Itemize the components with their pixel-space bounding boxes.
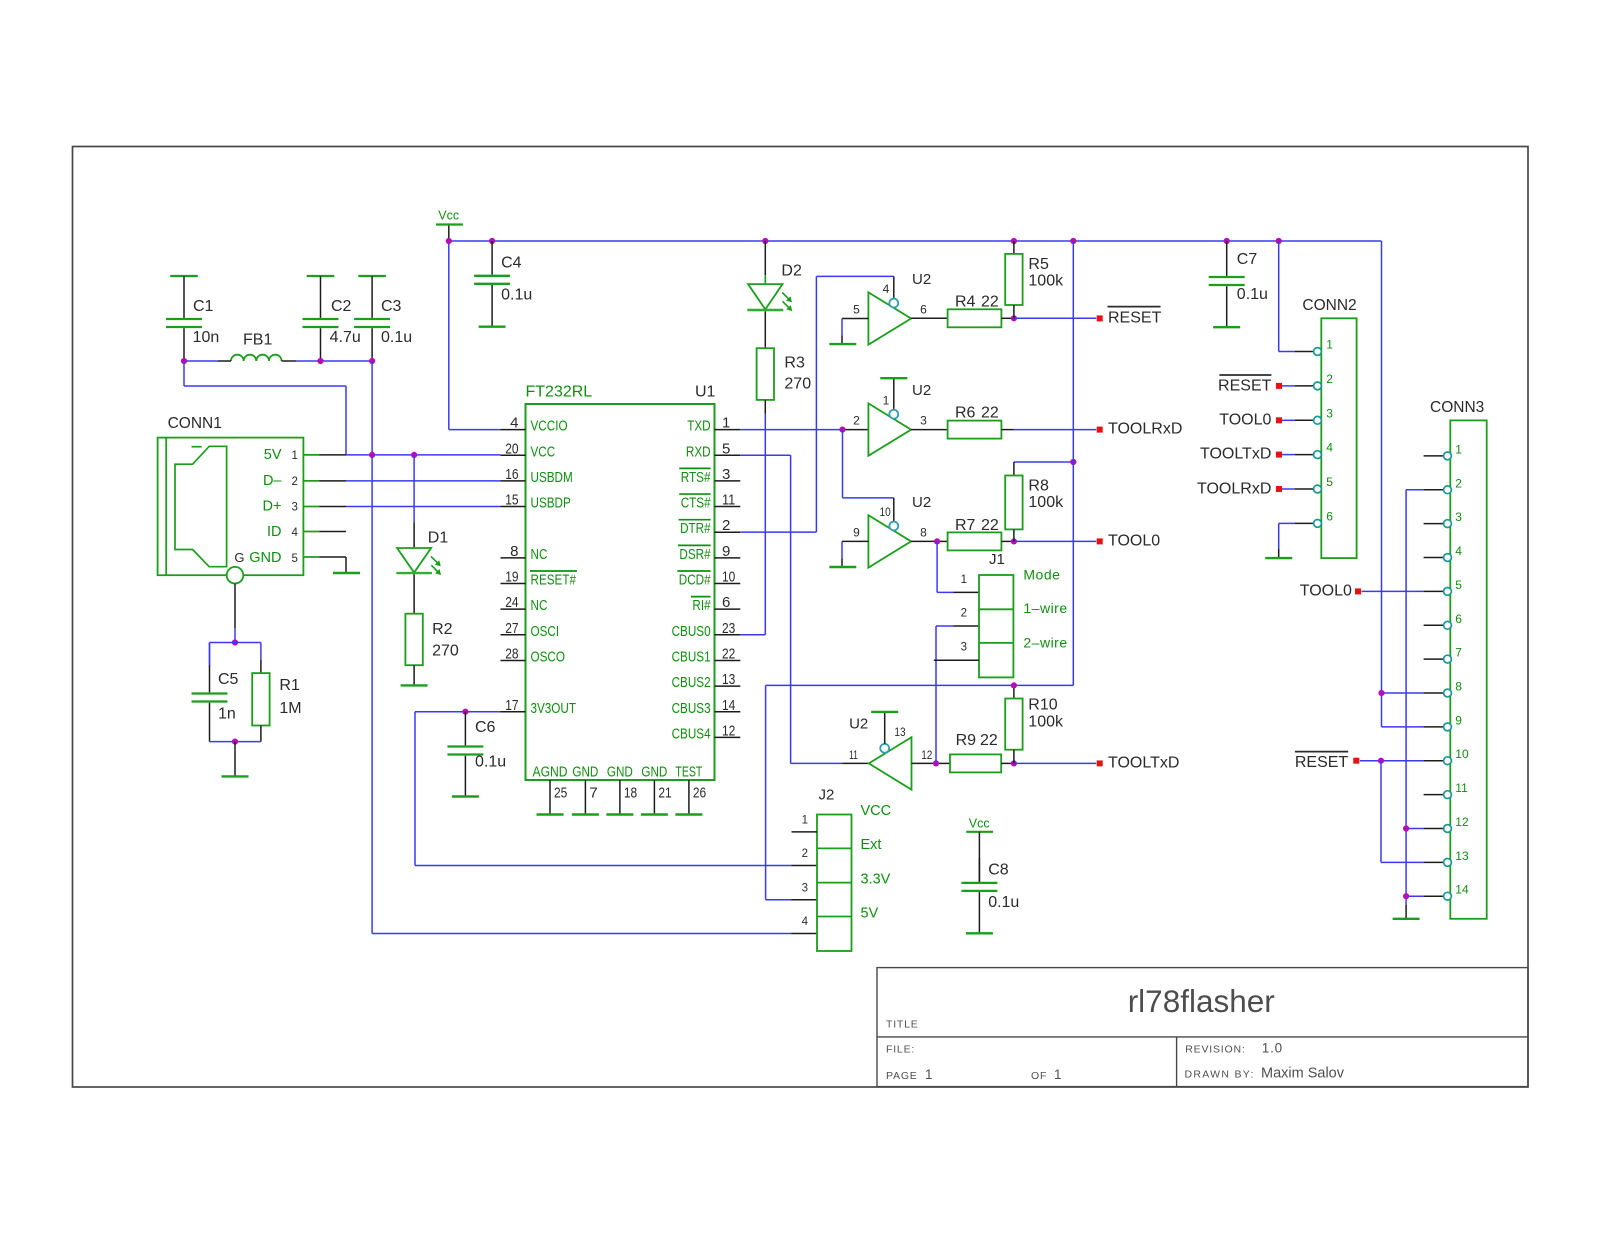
svg-text:J2: J2 (819, 787, 835, 804)
capacitor C8 0.1u (961, 858, 1019, 933)
U1 pin 27 OSCI (501, 620, 560, 640)
U1 pin 4 VCCIO (501, 415, 568, 435)
title block (877, 968, 1528, 1087)
drawing border frame (73, 147, 1529, 1088)
CONN3 pin 7 (1424, 646, 1463, 663)
resistor R2 270 (405, 574, 458, 685)
wire U2b output to R6 (911, 429, 948, 431)
svg-text:18: 18 (624, 784, 637, 801)
U1 pin 13 CBUS2 (672, 671, 741, 691)
wire VCC net CONN1 to U1 pin20 (346, 454, 501, 456)
svg-text:6: 6 (920, 303, 927, 317)
capacitor C6 0.1u (447, 712, 506, 797)
svg-text:GND: GND (249, 550, 281, 566)
svg-text:100k: 100k (1028, 272, 1064, 289)
U1 pin 15 USBDP (501, 492, 571, 512)
wire junction up to J1 pin2 (936, 626, 979, 763)
CONN2 pin 1 (1314, 338, 1334, 356)
svg-text:CBUS1: CBUS1 (672, 648, 711, 665)
svg-text:19: 19 (505, 569, 518, 586)
CONN1 shield pin G circle (227, 567, 244, 584)
J2 pin 2 (802, 848, 808, 860)
svg-text:1: 1 (292, 450, 298, 462)
svg-text:14: 14 (1455, 883, 1469, 897)
CONN2 pin 6 (1314, 509, 1334, 527)
svg-text:ID: ID (267, 524, 282, 540)
svg-text:RESET: RESET (1108, 309, 1162, 326)
svg-text:R3: R3 (784, 355, 805, 372)
U1 pin 18 GND (607, 763, 637, 814)
junction TOOL0 to J1 pin1 (934, 538, 940, 544)
svg-text:1: 1 (1326, 338, 1333, 352)
wire CONN1 GND pin to ground (345, 557, 347, 573)
buffer U2d pins 13 11 12 (849, 716, 933, 790)
svg-text:C1: C1 (193, 298, 214, 315)
svg-text:22: 22 (980, 732, 998, 749)
capacitor C2 4.7u (303, 276, 361, 361)
svg-text:CBUS2: CBUS2 (672, 674, 711, 691)
junction Vcc-VCCIO corner (446, 238, 452, 244)
wire C5/R1 parallel loop top (210, 643, 261, 666)
wire U2a enable pin 4 (893, 276, 895, 297)
svg-text:OSCO: OSCO (531, 648, 566, 665)
svg-text:12: 12 (722, 722, 735, 739)
U1 pin 2 DTR# (679, 517, 741, 537)
wire Vcc column down to R10 row (1072, 241, 1074, 685)
svg-text:9: 9 (1455, 713, 1462, 727)
svg-text:10: 10 (722, 569, 735, 586)
svg-text:rl78flasher: rl78flasher (1128, 983, 1275, 1019)
svg-text:3: 3 (920, 414, 927, 428)
svg-text:PAGE: PAGE (886, 1070, 918, 1082)
U1 pin 3 RTS# (679, 466, 740, 486)
svg-text:1–wire: 1–wire (1023, 600, 1067, 616)
junction Vcc-C7 (1224, 238, 1230, 244)
svg-text:3V3OUT: 3V3OUT (531, 700, 577, 717)
wire R3 to CBUS0 (740, 400, 765, 635)
ground at U2a input (829, 343, 856, 345)
CONN2 pin 3 (1314, 406, 1334, 424)
off-page RESET to CONN3 pin10 (1295, 752, 1424, 771)
svg-text:2: 2 (722, 517, 730, 534)
svg-text:3: 3 (1326, 406, 1333, 420)
U1 pin 9 DSR# (678, 543, 740, 563)
capacitor C7 0.1u (1209, 241, 1268, 327)
junction C3 (369, 358, 375, 364)
wire USBDM D- to U1 pin16 (346, 480, 501, 482)
svg-text:12: 12 (1455, 815, 1469, 829)
svg-text:C7: C7 (1237, 251, 1258, 268)
ground below CONN1 GND pin (333, 572, 360, 574)
svg-text:R10: R10 (1028, 697, 1057, 714)
svg-text:1: 1 (961, 574, 967, 586)
off-page TOOL0 to CONN3 pin5 (1300, 582, 1424, 599)
title block labels (886, 1019, 1345, 1083)
svg-text:10n: 10n (193, 329, 220, 346)
ground below U1 pin 26 (675, 813, 702, 815)
svg-text:25: 25 (554, 784, 567, 801)
CONN1 pin 2 D- (263, 473, 346, 489)
CONN1 pin 1 5V (264, 447, 346, 463)
svg-text:CTS#: CTS# (681, 495, 711, 512)
connector CONN3 (1430, 399, 1487, 919)
svg-text:TEST: TEST (675, 763, 702, 780)
CONN3 pin 9 (1424, 713, 1463, 730)
svg-text:22: 22 (981, 293, 999, 310)
svg-text:D+: D+ (263, 499, 282, 515)
svg-text:3.3V: 3.3V (861, 872, 891, 888)
J1 pin 3 (934, 642, 979, 661)
svg-text:0.1u: 0.1u (501, 287, 532, 304)
junction R10 top (1011, 682, 1017, 688)
svg-text:CBUS3: CBUS3 (672, 700, 711, 717)
junction Vcc column to R8 (1070, 459, 1076, 465)
svg-text:U1: U1 (695, 383, 716, 400)
svg-text:RXD: RXD (686, 443, 711, 460)
svg-text:CONN3: CONN3 (1430, 399, 1484, 416)
junction 3V3OUT-C6 (462, 709, 468, 715)
svg-text:1: 1 (1054, 1067, 1062, 1082)
ground bar above U2d (871, 711, 898, 713)
svg-text:3: 3 (292, 502, 298, 514)
svg-text:USBDP: USBDP (531, 495, 571, 512)
svg-text:0.1u: 0.1u (381, 329, 412, 346)
off-page TOOL0 right (1097, 532, 1161, 549)
svg-text:5V: 5V (264, 447, 282, 463)
wire C5/R1 parallel loop bottom (210, 741, 261, 743)
svg-text:U2: U2 (912, 494, 931, 511)
wire shield G down to C5/R1 (234, 584, 236, 643)
svg-text:2: 2 (802, 848, 808, 860)
svg-text:11: 11 (849, 748, 858, 762)
wire C3 junction down to VCC line (371, 361, 373, 455)
svg-text:TOOLRxD: TOOLRxD (1197, 480, 1271, 497)
capacitor C4 0.1u (474, 241, 532, 327)
resistor R8 100k (1005, 462, 1073, 541)
svg-text:C4: C4 (501, 255, 522, 272)
CONN3 pin 2 (1424, 476, 1463, 493)
svg-text:2: 2 (853, 414, 860, 428)
U1 pin 10 DCD# (677, 569, 740, 589)
svg-text:RESET: RESET (1295, 754, 1349, 771)
svg-text:GND: GND (572, 763, 598, 780)
svg-text:U2: U2 (912, 382, 931, 399)
svg-text:5: 5 (1455, 578, 1462, 592)
capacitor C1 10n (166, 276, 219, 361)
svg-text:4: 4 (292, 527, 299, 539)
U1 pin 6 RI# (691, 594, 740, 614)
ground below C5/R1 (222, 775, 249, 777)
U1 pin 28 OSCO (501, 645, 566, 665)
svg-text:1: 1 (883, 393, 890, 407)
svg-text:C3: C3 (381, 298, 402, 315)
resistor R5 100k (1005, 241, 1064, 318)
CONN1 pin 4 ID (267, 524, 346, 540)
off-page RESET right (1097, 307, 1162, 327)
svg-text:R9: R9 (956, 732, 977, 749)
svg-text:RESET#: RESET# (531, 572, 577, 589)
svg-text:0.1u: 0.1u (475, 754, 506, 771)
wire RESET branch to CONN3 pin13 (1381, 761, 1424, 863)
off-page TOOLRxD to CONN2 pin5 (1197, 480, 1314, 497)
junction RESET-CONN3 pin13 branch (1378, 758, 1384, 764)
svg-text:R4: R4 (955, 293, 976, 310)
junction shield net top (232, 639, 238, 645)
svg-text:2: 2 (1455, 476, 1462, 490)
svg-text:23: 23 (722, 620, 735, 637)
LED D2 (747, 241, 802, 311)
off-page TOOL0 to CONN2 pin3 (1219, 411, 1313, 428)
svg-text:16: 16 (505, 466, 518, 483)
wire FB1 to C2/C3 junctions (282, 360, 373, 362)
wire U2d enable to bar (884, 712, 886, 744)
ground below U1 pin 25 (537, 813, 564, 815)
svg-text:9: 9 (722, 543, 730, 560)
svg-text:14: 14 (722, 697, 735, 714)
svg-text:GND: GND (607, 763, 633, 780)
svg-text:3: 3 (1455, 510, 1462, 524)
wire U2b enable to bar (893, 378, 895, 409)
CONN3 pin 10 (1424, 747, 1469, 764)
svg-text:4: 4 (802, 916, 809, 928)
svg-text:17: 17 (505, 697, 518, 714)
connector J1 Mode (979, 551, 1068, 678)
svg-text:2–wire: 2–wire (1023, 634, 1067, 650)
svg-text:15: 15 (505, 492, 518, 509)
wire Vcc rail right corner down to CONN3 pins 8 9 (1382, 241, 1424, 727)
svg-text:R6: R6 (955, 405, 976, 422)
svg-text:CONN1: CONN1 (168, 415, 222, 432)
power symbol Vcc (C8) (966, 817, 993, 883)
svg-text:FT232RL: FT232RL (526, 383, 593, 400)
svg-text:R8: R8 (1028, 477, 1049, 494)
svg-text:C8: C8 (988, 862, 1009, 879)
svg-text:R7: R7 (955, 517, 976, 534)
svg-text:6: 6 (1455, 612, 1462, 626)
wire down to J2 pin3 (766, 685, 817, 899)
buffer U2c pins 10 9 8 (853, 494, 931, 568)
wire Vcc rail to VCCIO pin4 (449, 241, 501, 430)
wire junction down to J1 pin1 (937, 541, 979, 592)
CONN2 pin 4 (1314, 441, 1334, 459)
junction Vcc-CONN3 pin8 (1378, 690, 1384, 696)
svg-text:13: 13 (722, 671, 735, 688)
ferrite bead FB1 (231, 331, 282, 361)
U1 pin 16 USBDM (501, 466, 573, 486)
svg-text:FB1: FB1 (243, 331, 272, 348)
svg-text:21: 21 (658, 784, 671, 801)
CONN3 pin 6 (1424, 612, 1463, 629)
svg-text:U2: U2 (912, 271, 931, 288)
svg-text:3: 3 (722, 466, 730, 483)
svg-text:5: 5 (722, 440, 730, 457)
off-page TOOLRxD right (1097, 421, 1183, 438)
svg-text:6: 6 (1326, 509, 1333, 523)
svg-text:0.1u: 0.1u (988, 894, 1019, 911)
ground below R2 (401, 684, 428, 686)
U1 pin 14 CBUS3 (672, 697, 741, 717)
svg-text:GND: GND (641, 763, 667, 780)
svg-text:4.7u: 4.7u (330, 329, 361, 346)
svg-text:AGND: AGND (533, 763, 568, 780)
svg-text:4: 4 (510, 415, 518, 432)
svg-text:R2: R2 (432, 621, 453, 638)
power symbol Vcc (main rail) (436, 209, 463, 242)
svg-text:OF: OF (1031, 1070, 1047, 1082)
ground below C7 (1213, 326, 1240, 328)
wire TOOLTxD to off-page (1014, 762, 1096, 764)
wire junction to ground (234, 742, 236, 777)
wire VCC down to J2 pin4 (372, 455, 817, 934)
svg-text:NC: NC (531, 597, 548, 614)
svg-text:5V: 5V (861, 906, 879, 922)
wire U2a output to R4 (911, 317, 948, 319)
svg-text:R1: R1 (279, 677, 300, 694)
svg-text:1n: 1n (218, 706, 236, 723)
svg-text:D1: D1 (428, 530, 449, 547)
svg-text:DRAWN BY:: DRAWN BY: (1185, 1069, 1255, 1081)
svg-text:1: 1 (802, 815, 808, 827)
svg-text:4: 4 (883, 282, 890, 296)
svg-text:7: 7 (589, 784, 597, 801)
wire C1 junction to FB1 (184, 360, 231, 362)
svg-text:TXD: TXD (687, 418, 711, 435)
junction TOOLTxD to J1 pin2 (933, 760, 939, 766)
svg-text:RESET: RESET (1218, 377, 1272, 394)
CONN1 pin 3 D+ (263, 499, 346, 515)
svg-text:DCD#: DCD# (679, 572, 711, 589)
ground below CONN2 (1265, 557, 1292, 559)
svg-text:2: 2 (1326, 372, 1333, 386)
resistor R4 22 (948, 293, 1014, 327)
svg-text:D2: D2 (781, 263, 802, 280)
CONN2 pin 6 wire to ground (1279, 523, 1314, 558)
CONN2 pin 2 (1314, 372, 1334, 390)
CONN3 pin 14 (1424, 883, 1469, 900)
junction TXD branch (839, 427, 845, 433)
wire 5V from C1 down to CONN1 pin1 (184, 361, 346, 455)
junction VCC-C3 branch (369, 452, 375, 458)
svg-text:5: 5 (292, 553, 298, 565)
svg-text:FILE:: FILE: (886, 1043, 915, 1055)
svg-text:USBDM: USBDM (531, 469, 573, 486)
svg-text:13: 13 (1455, 849, 1469, 863)
svg-text:0.1u: 0.1u (1237, 286, 1268, 303)
U1 pin 19 RESET# (501, 569, 578, 589)
CONN3 pin 11 (1424, 781, 1468, 798)
svg-text:2: 2 (961, 608, 967, 620)
svg-text:RI#: RI# (692, 597, 711, 614)
resistor R9 22 (950, 732, 1014, 772)
CONN3 pin 13 (1424, 849, 1469, 866)
junction Vcc-CONN2 pin1 (1276, 238, 1282, 244)
svg-text:4: 4 (1455, 544, 1462, 558)
U1 pin 24 NC (501, 594, 548, 614)
svg-text:6: 6 (722, 594, 730, 611)
svg-text:DTR#: DTR# (680, 520, 711, 537)
svg-text:8: 8 (920, 525, 927, 539)
svg-text:10: 10 (880, 505, 891, 519)
svg-text:RTS#: RTS# (681, 469, 711, 486)
wire RESET to off-page (1014, 317, 1096, 319)
wire Vcc rail horizontal (449, 240, 1382, 242)
svg-text:100k: 100k (1028, 494, 1064, 511)
IC U1 FT232RL body (526, 383, 716, 780)
svg-text:13: 13 (894, 725, 905, 739)
svg-text:R5: R5 (1028, 256, 1049, 273)
svg-text:Vcc: Vcc (969, 817, 990, 831)
junction shield net bottom (232, 739, 238, 745)
svg-text:CONN2: CONN2 (1302, 297, 1356, 314)
junction GND-pin14 (1403, 893, 1409, 899)
U1 pin 22 CBUS1 (672, 645, 741, 665)
U1 pin 25 AGND (533, 763, 568, 814)
svg-text:26: 26 (693, 784, 706, 801)
wire U2a input to ground (842, 319, 868, 345)
ground below U1 pin 18 (606, 813, 633, 815)
wire R10 row across to J2 pin3 column (766, 684, 1074, 686)
svg-text:11: 11 (722, 492, 735, 509)
svg-text:C5: C5 (218, 671, 239, 688)
junction GND-pin12 (1403, 825, 1409, 831)
ground below U1 pin 21 (641, 813, 668, 815)
svg-text:11: 11 (1455, 781, 1468, 795)
wire RXD net U1 pin5 to U2d input (740, 455, 869, 763)
svg-text:5: 5 (853, 303, 860, 317)
title text rl78flasher (1128, 983, 1275, 1019)
resistor R3 270 (757, 311, 812, 400)
svg-text:3: 3 (961, 642, 967, 654)
svg-text:1: 1 (925, 1067, 933, 1082)
svg-text:8: 8 (1455, 680, 1462, 694)
svg-text:OSCI: OSCI (531, 623, 560, 640)
U1 pin 8 NC (501, 543, 548, 563)
svg-text:3: 3 (802, 882, 808, 894)
ground at U2c input (829, 566, 856, 568)
svg-text:NC: NC (531, 546, 548, 563)
wire U2d output to R9 (912, 762, 951, 764)
CONN3 pin 4 (1424, 544, 1463, 561)
svg-text:270: 270 (432, 643, 459, 660)
J1 pin 1 (961, 574, 967, 586)
svg-text:Vcc: Vcc (438, 209, 459, 223)
CONN2 pin 5 (1314, 475, 1334, 493)
wire TOOLRxD to off-page (1014, 429, 1096, 431)
svg-text:4: 4 (1326, 441, 1333, 455)
CONN3 pin 12 (1424, 815, 1469, 832)
buffer U2b pins 1 2 3 (853, 382, 931, 456)
CONN3 pin 8 (1424, 680, 1463, 697)
capacitor C5 1n (192, 643, 239, 742)
svg-text:TOOL0: TOOL0 (1300, 582, 1352, 599)
CONN2 pin 1 wire from Vcc (1279, 241, 1314, 352)
svg-text:7: 7 (1455, 646, 1462, 660)
svg-text:27: 27 (505, 620, 518, 637)
svg-text:22: 22 (981, 405, 999, 422)
connector J2 (817, 787, 852, 952)
svg-text:TOOLTxD: TOOLTxD (1200, 446, 1271, 463)
svg-text:2: 2 (292, 476, 298, 488)
svg-text:12: 12 (921, 748, 932, 762)
junction TOOL0-R8 (1011, 538, 1017, 544)
svg-text:D–: D– (263, 473, 282, 489)
svg-text:REVISION:: REVISION: (1185, 1043, 1245, 1055)
svg-text:1: 1 (1455, 442, 1462, 456)
ground bar above U2b (880, 377, 907, 379)
svg-text:5: 5 (1326, 475, 1333, 489)
junction Vcc-C4 (489, 238, 495, 244)
svg-text:24: 24 (505, 594, 518, 611)
